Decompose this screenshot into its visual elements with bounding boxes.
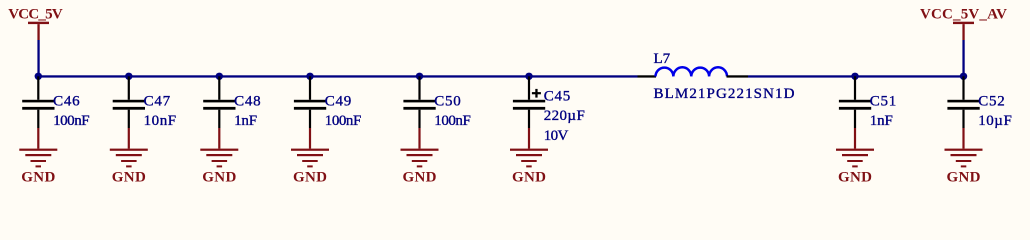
svg-text:100nF: 100nF [434, 113, 471, 129]
wire from VCC_5V_AV down to bus [962, 40, 964, 76]
capacitor C48 [203, 76, 235, 128]
svg-text:BLM21PG221SN1D: BLM21PG221SN1D [654, 86, 795, 102]
svg-text:1nF: 1nF [870, 113, 893, 129]
svg-text:C52: C52 [978, 94, 1005, 110]
junction node at C46 [35, 73, 42, 80]
junction node at C52 [960, 73, 967, 80]
svg-text:GND: GND [202, 169, 236, 185]
junction node at C51 [851, 73, 858, 80]
junction node at C48 [216, 73, 223, 80]
svg-text:C46: C46 [53, 94, 80, 110]
svg-text:C50: C50 [434, 94, 461, 110]
svg-text:10nF: 10nF [144, 113, 177, 129]
capacitor C51 [839, 76, 871, 128]
wire main bus (left of L7) [37, 75, 637, 77]
junction node at C49 [306, 73, 313, 80]
capacitor C52 [947, 76, 979, 128]
svg-text:220µF: 220µF [544, 108, 585, 124]
junction node at C45 [525, 73, 532, 80]
ground GND at C50 [401, 128, 439, 167]
wire main bus (right of L7) [748, 75, 965, 77]
svg-text:GND: GND [512, 169, 546, 185]
ground GND at C52 [945, 128, 983, 167]
ground GND at C51 [836, 128, 874, 167]
svg-text:GND: GND [403, 169, 437, 185]
svg-text:1nF: 1nF [234, 113, 257, 129]
svg-text:C47: C47 [144, 94, 171, 110]
svg-text:GND: GND [293, 169, 327, 185]
svg-text:100nF: 100nF [325, 113, 362, 129]
capacitor C47 [113, 76, 145, 128]
ground GND at C45 [510, 128, 548, 167]
inductor L7 pin 1 [638, 75, 657, 77]
ground GND at C47 [110, 128, 148, 167]
power port VCC_5V_AV [953, 22, 974, 40]
junction node at C47 [125, 73, 132, 80]
capacitor C45 [513, 76, 545, 128]
svg-text:VCC_5V: VCC_5V [8, 6, 63, 22]
svg-text:10µF: 10µF [978, 113, 1012, 129]
inductor L7 pin 2 [727, 75, 749, 77]
capacitor C49 [294, 76, 326, 128]
svg-text:C51: C51 [870, 94, 897, 110]
svg-text:GND: GND [21, 169, 55, 185]
svg-text:10V: 10V [544, 128, 569, 144]
svg-text:C48: C48 [234, 94, 261, 110]
svg-text:L7: L7 [654, 51, 671, 67]
ground GND at C49 [291, 128, 329, 167]
svg-text:GND: GND [112, 169, 146, 185]
svg-text:C45: C45 [544, 89, 571, 105]
svg-text:C49: C49 [325, 94, 352, 110]
wire from VCC_5V down to bus [37, 40, 39, 76]
svg-text:GND: GND [838, 169, 872, 185]
inductor L7 body (4 arcs) [656, 67, 728, 76]
ground GND at C46 [19, 128, 57, 167]
svg-text:VCC_5V_AV: VCC_5V_AV [920, 6, 1007, 22]
svg-text:100nF: 100nF [53, 113, 90, 129]
capacitor C46 [22, 76, 54, 128]
plus sign of C45 [532, 89, 541, 98]
ground GND at C48 [200, 128, 238, 167]
svg-text:GND: GND [947, 169, 981, 185]
power port VCC_5V [28, 22, 49, 40]
capacitor C50 [403, 76, 435, 128]
junction node at C50 [416, 73, 423, 80]
